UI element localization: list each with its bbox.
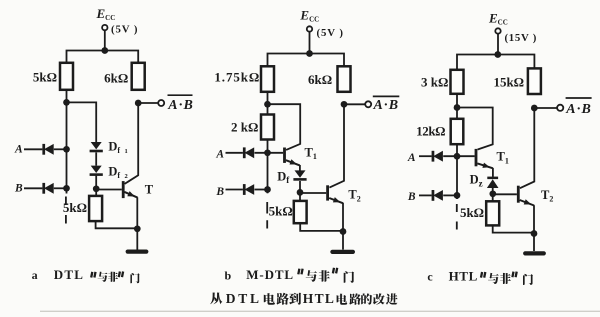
svg-text:15kΩ: 15kΩ [493, 74, 524, 89]
svg-text:5kΩ: 5kΩ [460, 205, 484, 220]
svg-text:5kΩ: 5kΩ [33, 70, 57, 85]
svg-text:ECC: ECC [96, 6, 116, 22]
svg-text:6kΩ: 6kΩ [104, 70, 128, 85]
svg-text:5kΩ: 5kΩ [63, 200, 87, 215]
svg-text:(5V ): (5V ) [111, 23, 138, 35]
svg-text:b: b [225, 269, 232, 283]
svg-text:1: 1 [125, 148, 128, 155]
svg-text:1.75kΩ: 1.75kΩ [214, 69, 260, 84]
svg-text:5kΩ: 5kΩ [269, 204, 293, 219]
svg-text:A: A [215, 148, 224, 160]
svg-text:3 kΩ: 3 kΩ [421, 74, 448, 89]
svg-text:DTL: DTL [54, 267, 84, 282]
svg-text:M-DTL: M-DTL [246, 267, 294, 282]
svg-text:T1: T1 [305, 145, 317, 161]
svg-text:12kΩ: 12kΩ [416, 123, 445, 138]
svg-text:T2: T2 [541, 188, 553, 204]
svg-text:A: A [407, 152, 416, 164]
svg-text:A: A [14, 144, 23, 156]
svg-text:Dz: Dz [470, 173, 483, 189]
svg-text:A·B: A·B [167, 98, 194, 113]
svg-text:A·B: A·B [373, 98, 400, 113]
svg-text:T: T [145, 182, 154, 196]
svg-text:DTL: DTL [226, 291, 262, 306]
svg-text:Df: Df [108, 165, 120, 180]
svg-text:c: c [427, 270, 433, 284]
svg-text:HTL: HTL [449, 269, 478, 284]
svg-text:B: B [215, 186, 224, 198]
svg-text:2 kΩ: 2 kΩ [231, 120, 258, 135]
svg-text:6kΩ: 6kΩ [308, 72, 332, 87]
svg-text:T1: T1 [497, 150, 509, 166]
svg-text:ECC: ECC [488, 11, 508, 27]
svg-text:2: 2 [125, 173, 128, 180]
svg-text:(15V ): (15V ) [505, 32, 538, 44]
svg-text:HTL: HTL [303, 291, 335, 306]
svg-text:Df: Df [108, 140, 120, 155]
svg-text:A·B: A·B [565, 102, 592, 117]
svg-text:B: B [407, 191, 416, 203]
svg-text:a: a [32, 268, 38, 282]
svg-text:B: B [14, 183, 23, 195]
svg-text:Df: Df [277, 169, 290, 185]
svg-text:(5V ): (5V ) [317, 27, 344, 39]
svg-text:T2: T2 [348, 188, 360, 204]
svg-text:ECC: ECC [299, 8, 319, 24]
